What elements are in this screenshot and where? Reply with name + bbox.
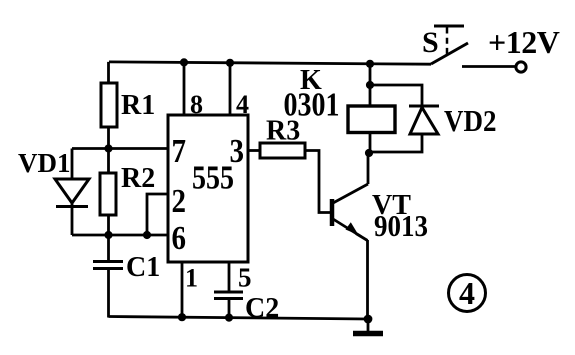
figure number circled 4 <box>449 275 486 312</box>
wire relay branch from top rail <box>369 64 372 85</box>
svg-text:3: 3 <box>230 132 245 170</box>
wire pin 4 <box>229 63 232 115</box>
node pin7 junction dot <box>104 144 112 152</box>
svg-text:C2: C2 <box>245 293 279 324</box>
wire VD2 top branch <box>370 85 422 106</box>
wire relay coil top <box>369 85 372 106</box>
node C2 dot on bottom rail <box>225 314 233 322</box>
svg-text:R2: R2 <box>121 163 155 194</box>
svg-text:555: 555 <box>192 158 234 196</box>
terminal circle +12V <box>516 62 526 72</box>
switch S blade <box>431 43 468 64</box>
svg-text:+12V: +12V <box>488 24 560 60</box>
svg-text:VD2: VD2 <box>444 105 496 139</box>
svg-text:2: 2 <box>172 182 187 220</box>
svg-text:C1: C1 <box>126 252 160 283</box>
switch S dashed actuator <box>446 28 449 58</box>
node pin4 dot on top rail <box>226 59 234 67</box>
wire C1 branch bottom <box>107 269 110 318</box>
node pin2 stub junction dot <box>143 231 151 239</box>
wire bottom rail <box>109 317 369 320</box>
wire pin 8 <box>183 62 186 115</box>
wire to +12V terminal <box>462 65 516 68</box>
wire pin 7 row <box>72 147 168 150</box>
wire R2 branch <box>107 149 110 236</box>
transistor Q1 VT 9013 <box>332 184 368 241</box>
wire pin 3 <box>248 149 260 152</box>
wire pin 5 <box>228 262 231 292</box>
wire collector up <box>367 153 370 184</box>
diode VD1 <box>55 179 89 207</box>
node pin1 dot on bottom rail <box>178 313 186 321</box>
wire VD1 branch bottom <box>71 203 74 235</box>
svg-text:4: 4 <box>236 90 249 119</box>
svg-text:S: S <box>422 26 439 59</box>
wire pin 6 row <box>72 234 168 237</box>
node R2/C1 junction dot <box>104 231 112 239</box>
node ground junction dot <box>364 315 373 324</box>
node pin8 dot on top rail <box>180 58 188 66</box>
diode VD2 <box>409 106 439 134</box>
wire C2 bottom <box>228 299 231 318</box>
svg-text:9013: 9013 <box>374 210 428 244</box>
wire R3 to base <box>305 151 331 213</box>
node relay/VD2 bottom junction dot <box>365 149 373 157</box>
wire relay coil bottom <box>369 133 372 154</box>
svg-text:6: 6 <box>172 219 187 257</box>
wire VD2 bottom branch <box>370 134 422 152</box>
resistor R2 <box>100 173 116 215</box>
svg-text:7: 7 <box>172 132 187 170</box>
resistor R1 <box>101 83 117 127</box>
capacitor C1 <box>93 262 123 269</box>
wire VD1 branch top <box>71 149 74 180</box>
wire emitter down <box>366 240 369 319</box>
node top rail relay branch dot <box>366 60 374 68</box>
IC op-amp U1 555 box <box>168 115 248 262</box>
wire R1 branch vertical <box>107 62 110 149</box>
wire pin 2 stub <box>147 194 168 235</box>
svg-text:VD1: VD1 <box>18 148 71 178</box>
node relay/VD2 top junction dot <box>366 81 374 89</box>
capacitor C2 <box>214 292 243 299</box>
wire pin 1 <box>181 262 184 318</box>
svg-text:R1: R1 <box>121 90 155 121</box>
svg-text:4: 4 <box>459 275 475 311</box>
svg-text:1: 1 <box>185 264 198 293</box>
switch S top bar <box>434 25 464 28</box>
ground <box>353 319 383 334</box>
svg-text:0301: 0301 <box>284 85 340 123</box>
svg-text:5: 5 <box>238 263 252 293</box>
svg-text:8: 8 <box>190 90 203 119</box>
relay K coil box <box>348 106 395 133</box>
resistor R3 <box>260 143 305 158</box>
wire top rail from R1 top to switch S <box>109 62 431 64</box>
wire C1 branch top <box>107 235 110 261</box>
